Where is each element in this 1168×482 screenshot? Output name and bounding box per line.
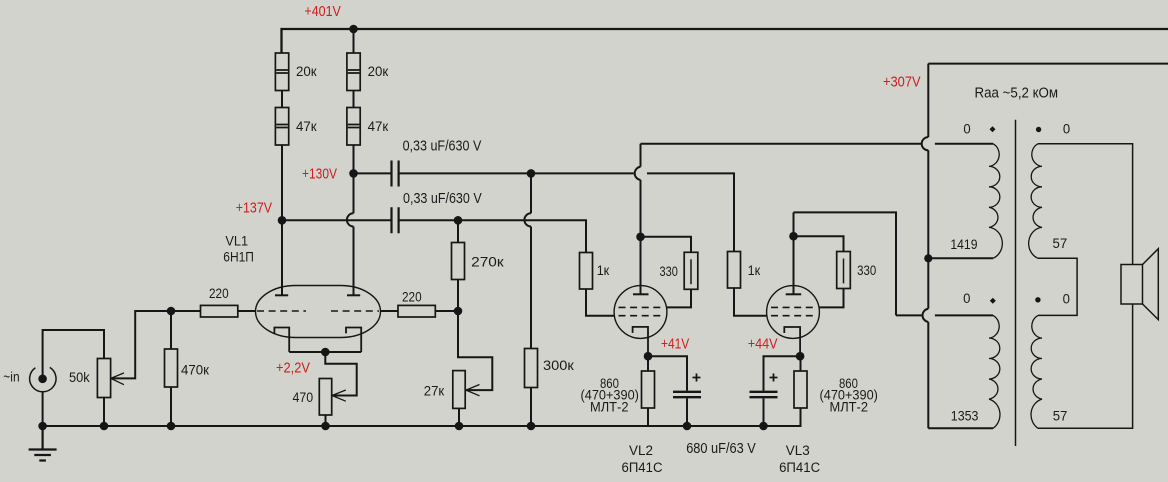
wire 330 to VL2 screen grid: [667, 289, 691, 307]
capacitor C4 680uF electrolytic: [750, 392, 778, 397]
VL3 anode plate: [786, 293, 802, 295]
capacitor C2 0,33uF lower: [392, 207, 399, 233]
VL2 anode plate: [633, 293, 649, 295]
transformer upper primary winding 1419: [989, 144, 1002, 259]
VL3 screen grid dashes: [771, 306, 816, 308]
wire 50k wiper to grid node: [111, 311, 171, 378]
wire row1 +130V to C1: [354, 172, 392, 174]
ground symbol: [29, 426, 57, 461]
wire row2 junction to 1k VL2 grid: [458, 220, 586, 252]
wire 220 to VL1 left grid: [238, 310, 256, 312]
resistor R12 300k: [525, 349, 538, 388]
VL3 anode lead: [793, 212, 795, 294]
svg-text:57: 57: [1053, 409, 1068, 424]
resistor R13 1k VL2 grid: [580, 253, 593, 290]
wire 270k to grid node: [457, 280, 459, 312]
svg-text:+2,2V: +2,2V: [276, 360, 310, 377]
wire 860 to ground rail: [647, 408, 649, 426]
svg-text:1к: 1к: [748, 263, 761, 278]
wire R4 to +130V node: [353, 145, 355, 173]
resistor R14 330 VL2 screen: [684, 252, 698, 289]
svg-text:6Н1П: 6Н1П: [223, 249, 254, 264]
wire 50k bottom to rail: [103, 398, 105, 427]
VL1 right cathode: [346, 328, 361, 353]
wire 470k top: [170, 311, 172, 349]
node +137V junction dot: [278, 216, 287, 225]
wire VL2 anode to output transformer upper primary: [641, 143, 994, 145]
node C3 ground dot: [683, 422, 692, 431]
capacitor C3 680uF electrolytic: [673, 392, 701, 397]
svg-text:0: 0: [1063, 292, 1070, 307]
plus sign C4: [770, 374, 778, 382]
transformer lower secondary winding 57: [1031, 315, 1042, 428]
node row2 junction dot: [454, 216, 463, 225]
svg-text:57: 57: [1053, 236, 1068, 251]
wire hop +307V over VL3 anode lead: [923, 309, 929, 322]
tube VL2 envelope: [614, 286, 667, 339]
wire VL2 cathode to C3: [648, 356, 687, 390]
VL1 grid dashes left triode: [257, 310, 306, 312]
resistor R6 220 right: [398, 305, 435, 317]
node VL3 cathode junction dot: [796, 352, 805, 361]
svg-text:VL1: VL1: [225, 234, 248, 249]
wire input shell to ground rail: [42, 392, 44, 426]
speaker BA1: [1121, 249, 1158, 320]
transformer T1 core: [1015, 120, 1017, 446]
node 300k ground dot: [527, 422, 536, 431]
node 470 ground dot: [321, 422, 330, 431]
resistor R18 860 VL3: [794, 371, 807, 408]
wire 300k to ground rail: [530, 388, 532, 427]
svg-text:680 uF/63 V: 680 uF/63 V: [686, 441, 756, 457]
wire 1k to VL2 grid: [586, 289, 614, 316]
wire 470k bottom to rail: [170, 387, 172, 426]
node row1 junction dot: [527, 169, 536, 178]
svg-text:270к: 270к: [471, 255, 503, 270]
svg-text:220: 220: [209, 286, 229, 301]
VL2 cathode: [633, 327, 648, 356]
wire VL3 anode to output transformer lower primary: [794, 212, 994, 315]
resistor R7 470k: [165, 349, 178, 387]
node VL2 anode junction dot: [636, 233, 645, 242]
resistor R5 220 left: [201, 305, 238, 317]
svg-text:300к: 300к: [543, 358, 574, 373]
svg-text:470к: 470к: [181, 363, 209, 378]
wire 330 to VL3 screen grid: [819, 288, 843, 307]
transformer upper secondary winding 57: [1029, 144, 1042, 259]
wire +130V node to VL1 right anode with hop: [353, 173, 355, 295]
wire hop VL2 anode over row1: [635, 167, 641, 180]
wire row2 +137V to C2: [282, 219, 391, 221]
wire row1 junction to 1k VL3 grid with hop at VL2 anode: [531, 173, 734, 251]
svg-text:6П41С: 6П41С: [779, 460, 820, 475]
wire C4 to ground rail: [763, 398, 765, 426]
wire 470 bottom to rail: [325, 415, 327, 426]
wire +137V node to VL1 left anode: [281, 220, 283, 295]
wire 1k to VL3 grid: [734, 288, 767, 316]
svg-text:20к: 20к: [368, 64, 389, 79]
resistor R4 47k right: [347, 108, 360, 146]
potentiometer R8 50k: [97, 359, 110, 398]
tube VL3 envelope: [767, 286, 820, 339]
input connector X1: [30, 367, 56, 391]
wire upper secondary top lead to speaker: [1038, 144, 1133, 265]
phasing mark dot upper secondary: [1036, 127, 1041, 132]
phasing mark diamond lower primary: [990, 298, 996, 304]
svg-text:МЛТ-2: МЛТ-2: [590, 400, 629, 415]
wire grid junction to 27k wiper zigzag: [458, 311, 492, 390]
node 50k ground dot: [100, 422, 109, 431]
resistor R11 270k: [452, 243, 465, 280]
svg-text:Raa ~5,2 кОм: Raa ~5,2 кОм: [975, 86, 1059, 102]
node VL3 anode junction dot: [789, 232, 798, 241]
svg-text:+307V: +307V: [883, 74, 921, 91]
wire upper primary bottom lead: [928, 257, 993, 259]
svg-text:220: 220: [402, 290, 422, 305]
wire hop +307V over VL2 anode lead: [922, 137, 929, 150]
svg-text:~in: ~in: [3, 369, 19, 385]
wire VL3 cathode to C4: [764, 356, 801, 390]
potentiometer R10 27k: [453, 371, 465, 409]
node 470k ground dot: [167, 422, 176, 431]
svg-text:0: 0: [963, 291, 970, 306]
wire hop 300k over row2: [524, 213, 531, 226]
node VL1 right grid junction dot: [454, 307, 463, 316]
resistor R17 860 VL2: [642, 371, 655, 408]
transformer lower primary winding 1353: [989, 315, 1000, 428]
wire 220 right to grid junction: [435, 310, 458, 312]
phasing mark dot lower secondary: [1035, 297, 1040, 302]
wire R2 to +137V node: [281, 145, 283, 220]
VL1 grid dashes right triode: [331, 310, 379, 312]
VL1 left anode plate: [275, 294, 288, 296]
resistor R15 1k VL3 grid: [728, 252, 741, 289]
svg-text:47к: 47к: [368, 119, 389, 134]
potentiometer R9 470: [319, 379, 331, 416]
node +130V junction dot: [349, 169, 358, 178]
svg-text:27к: 27к: [424, 384, 444, 399]
wire lower primary bottom lead: [928, 427, 993, 429]
node VL1 left grid junction dot: [167, 307, 176, 316]
VL1 left cathode: [274, 328, 289, 353]
plus sign C3: [693, 374, 701, 382]
svg-text:+130V: +130V: [302, 166, 337, 183]
wire between R3 R4: [353, 91, 355, 108]
capacitor C1 0,33uF upper: [392, 161, 399, 187]
wire VL2 cathode to 860: [647, 356, 649, 371]
wiper arrow 470: [332, 390, 346, 401]
VL2 screen grid dashes: [619, 306, 664, 308]
input center pin dot: [38, 375, 47, 384]
wire hop over row2: [347, 213, 354, 226]
svg-text:0: 0: [1063, 122, 1070, 137]
svg-text:0,33 uF/630 V: 0,33 uF/630 V: [403, 191, 482, 207]
svg-text:VL3: VL3: [786, 443, 810, 458]
VL1 right anode plate: [347, 294, 360, 296]
wire grid node to 220 left: [171, 310, 201, 312]
wire VL1 right grid to 220 right: [381, 310, 399, 312]
node VL2 cathode junction dot: [644, 352, 653, 361]
svg-text:+44V: +44V: [748, 336, 778, 353]
svg-text:+137V: +137V: [236, 200, 272, 217]
svg-text:330: 330: [857, 263, 876, 278]
wiper arrow 50k: [111, 373, 124, 385]
wire secondary series link: [1038, 258, 1077, 315]
wire between R1 R2: [281, 91, 283, 108]
phasing mark diamond upper primary: [990, 126, 996, 132]
svg-text:1419: 1419: [950, 237, 977, 252]
node input ground dot: [38, 422, 47, 431]
wire row2 junction to 270k: [457, 220, 459, 242]
svg-text:50k: 50k: [69, 370, 90, 385]
resistor R3 20k right: [347, 53, 360, 91]
svg-text:20к: 20к: [296, 64, 317, 79]
svg-text:МЛТ-2: МЛТ-2: [830, 400, 869, 415]
wire cathode to 470 wiper zigzag: [325, 352, 356, 396]
wiper arrow 27k: [466, 385, 480, 396]
VL3 control grid dashes: [771, 315, 816, 317]
node 27k ground dot: [455, 422, 464, 431]
node C4 ground dot: [759, 422, 768, 431]
svg-text:0,33 uF/630 V: 0,33 uF/630 V: [403, 139, 482, 155]
svg-text:+401V: +401V: [304, 3, 341, 20]
wire lower secondary bottom lead to speaker: [1038, 304, 1133, 428]
VL3 cathode: [784, 327, 800, 356]
wire right chain top: [353, 29, 355, 53]
VL2 control grid dashes: [619, 315, 664, 317]
svg-text:470: 470: [293, 390, 314, 405]
wire C1 to 300k junction: [399, 172, 531, 174]
resistor R2 47k left: [275, 108, 288, 146]
wire input pin up and to 50k top: [43, 330, 104, 377]
resistor R16 330 VL3 screen: [837, 252, 851, 289]
wire +307V feed: [928, 64, 1168, 429]
node transformer center tap dot: [924, 254, 932, 262]
ground rail: [43, 408, 801, 426]
wire 27k bottom to rail: [458, 408, 460, 426]
wire anode node to 330 screen resistor: [794, 236, 844, 251]
svg-text:47к: 47к: [296, 119, 317, 134]
wire VL1 cathode bus: [289, 351, 361, 353]
tube VL1 envelope: [256, 286, 381, 338]
wire C3 to ground rail: [686, 398, 688, 426]
svg-text:0: 0: [963, 122, 970, 137]
wire C2 to grid junction: [399, 219, 458, 221]
wire anode node to 330 screen resistor: [641, 237, 692, 253]
svg-text:1к: 1к: [597, 263, 610, 278]
svg-text:+41V: +41V: [661, 336, 689, 353]
resistor R1 20k left: [275, 53, 288, 91]
svg-text:6П41С: 6П41С: [622, 460, 663, 475]
svg-text:1353: 1353: [951, 409, 979, 424]
node VL1 cathode junction dot: [321, 348, 330, 357]
wire +401V top rail: [282, 29, 1168, 53]
wire 300k feed vertical with hop over row2: [530, 173, 532, 348]
svg-text:VL2: VL2: [629, 443, 653, 458]
VL2 anode lead with hop over row1: [640, 144, 642, 295]
node +401V junction dot: [349, 25, 358, 34]
svg-text:330: 330: [660, 264, 678, 279]
wire VL3 cathode to 860: [800, 356, 802, 371]
